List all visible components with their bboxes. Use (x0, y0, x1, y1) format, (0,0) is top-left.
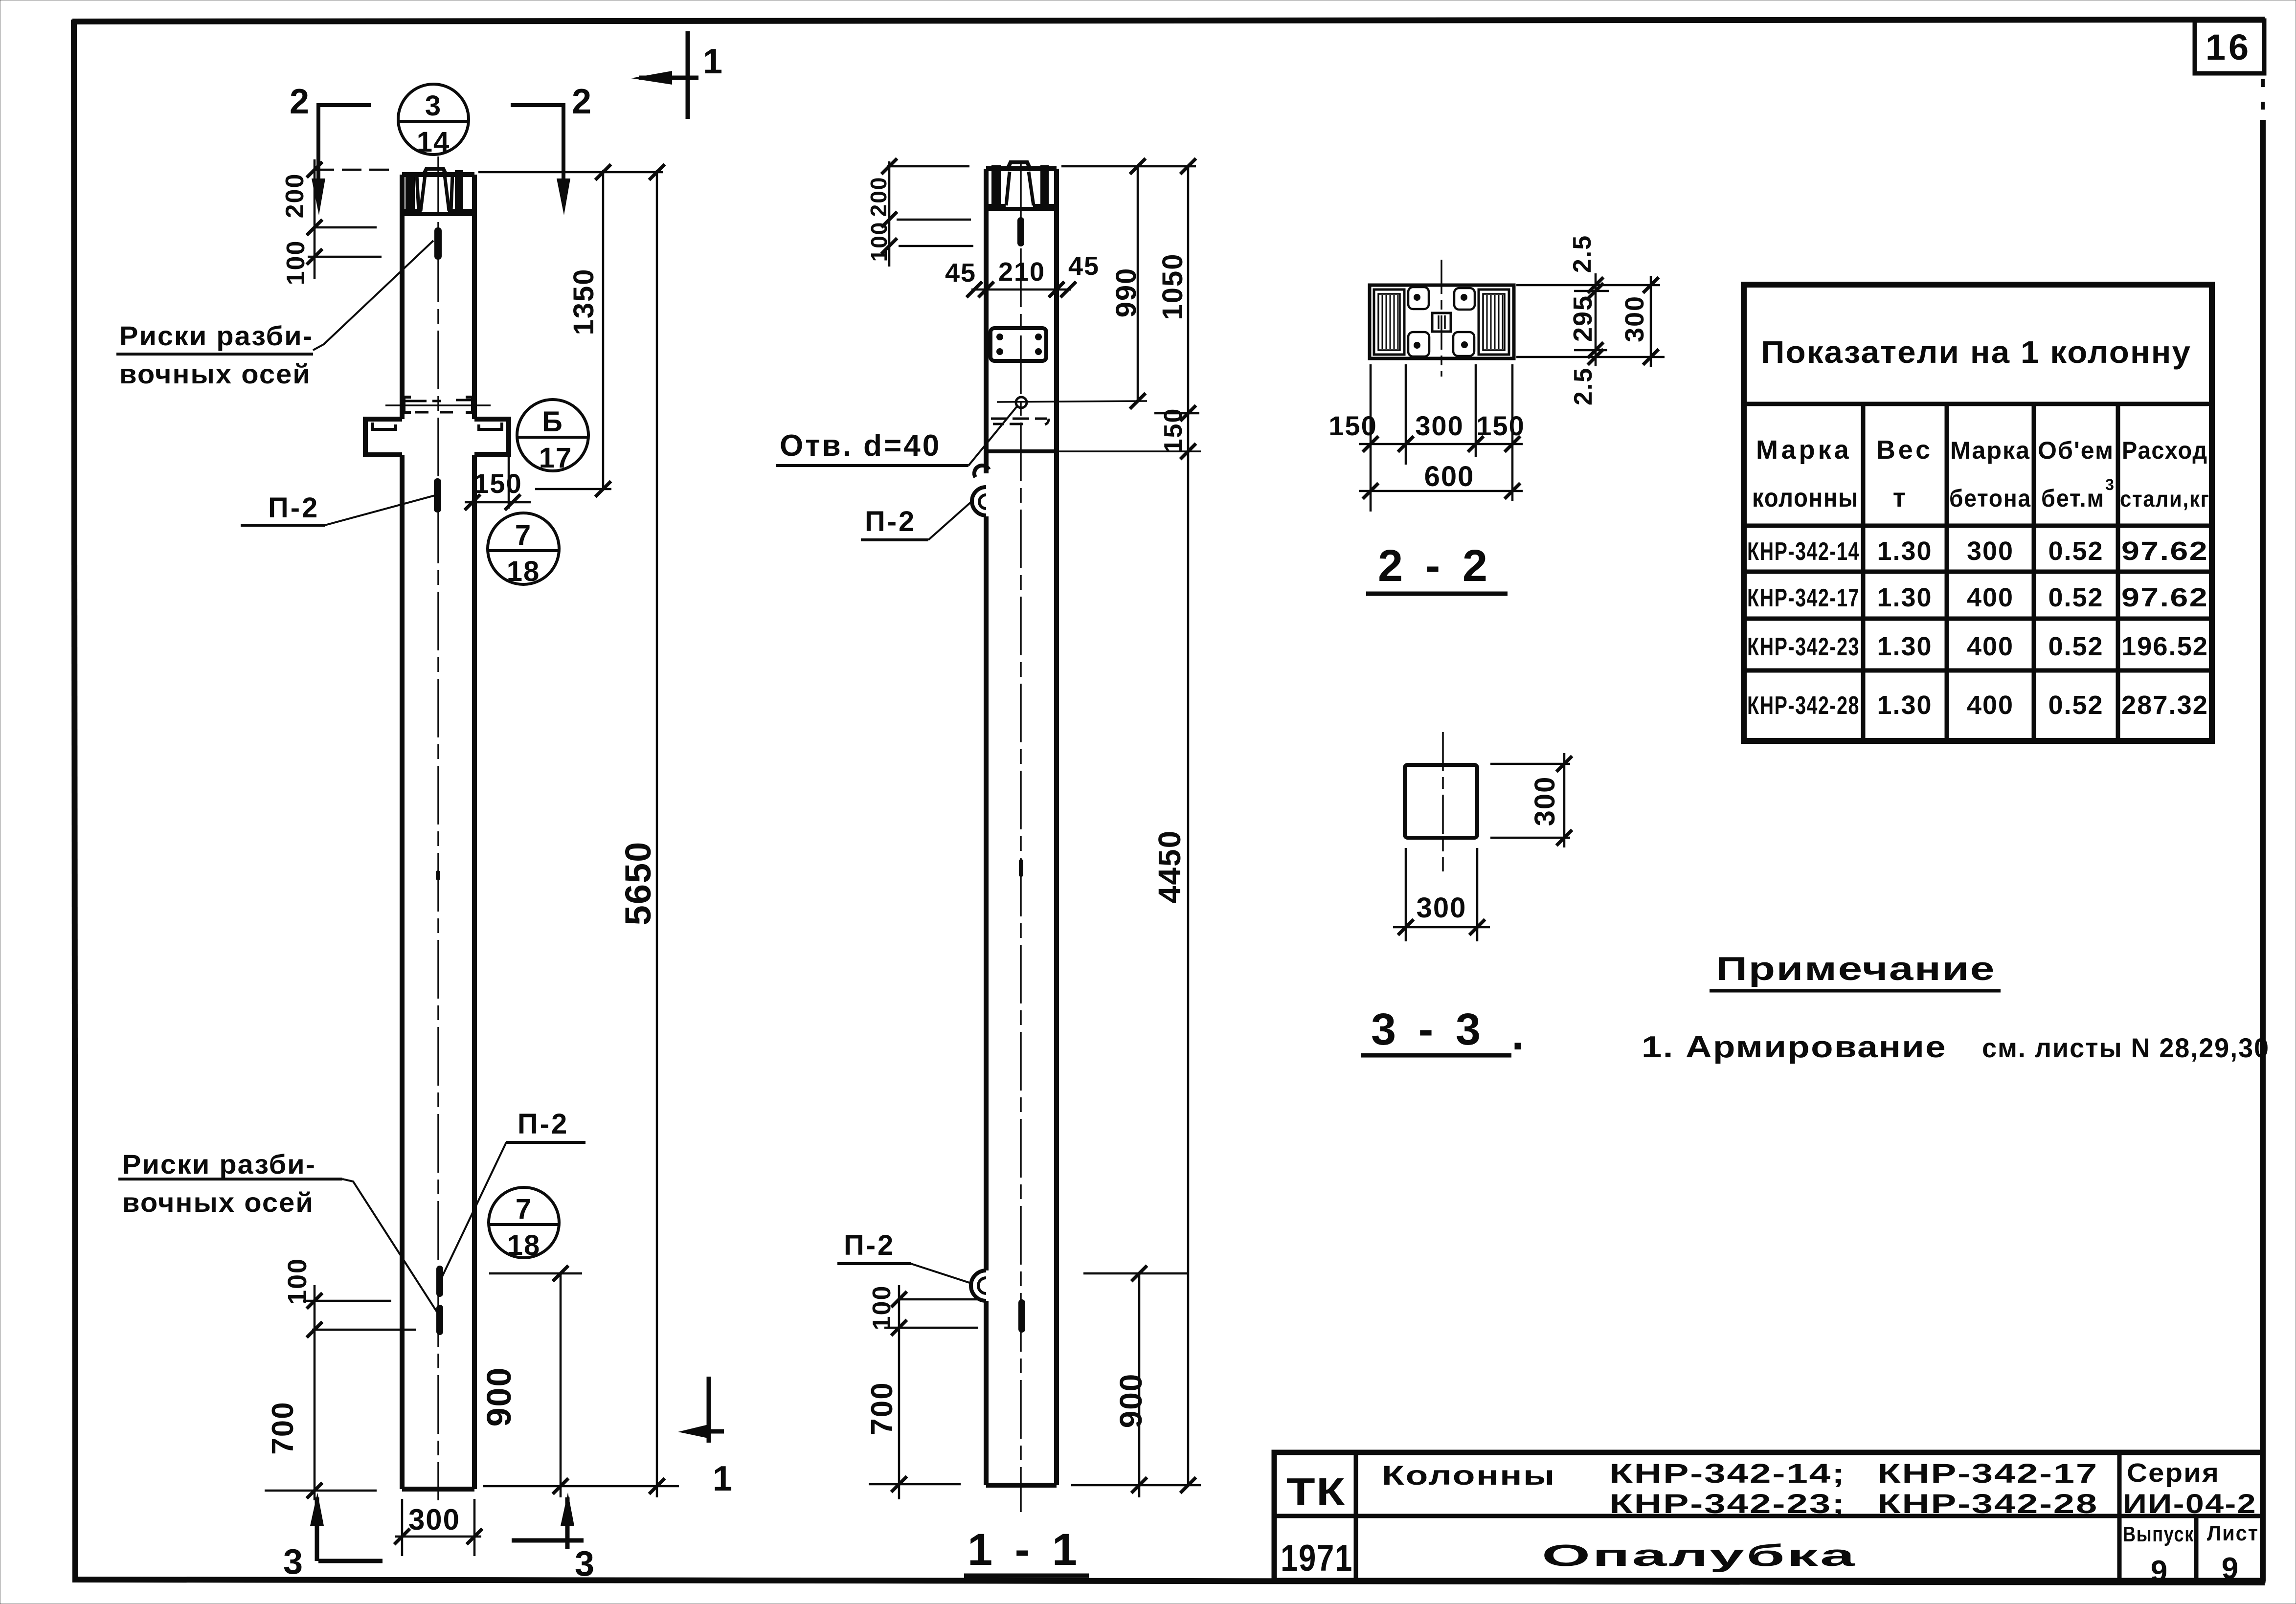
svg-text:2: 2 (572, 82, 592, 121)
svg-text:3: 3 (575, 1544, 595, 1583)
axis heavy dash mid-height (left column) (436, 870, 440, 880)
dim 300 below 3-3 (1393, 848, 1490, 941)
svg-text:1.30: 1.30 (1877, 536, 1932, 566)
svg-text:т: т (1893, 483, 1907, 512)
svg-text:100: 100 (866, 222, 892, 262)
detail circle 7/18 (upper) (488, 513, 559, 584)
svg-text:П-2: П-2 (268, 492, 319, 524)
four corner pads with anchor dots (1408, 287, 1475, 356)
svg-text:18: 18 (507, 1229, 541, 1261)
svg-text:Колонны: Колонны (1382, 1460, 1556, 1491)
svg-text:700: 700 (266, 1401, 300, 1454)
svg-text:1 - 1: 1 - 1 (968, 1525, 1082, 1575)
svg-text:ИИ-04-2: ИИ-04-2 (2123, 1488, 2257, 1519)
svg-text:КНР-342-17: КНР-342-17 (1877, 1458, 2098, 1489)
svg-text:196.52: 196.52 (2121, 632, 2208, 661)
svg-text:бетона: бетона (1949, 485, 2031, 512)
centre tenon of 2-2 (1432, 313, 1451, 332)
svg-text:200: 200 (866, 177, 891, 217)
axis heavy dash mid-height (middle column) (1019, 859, 1023, 877)
dim chain left-top (200/100) (307, 159, 394, 279)
svg-text:990: 990 (1110, 267, 1142, 318)
svg-text:300: 300 (1417, 892, 1467, 924)
svg-text:Серия: Серия (2127, 1458, 2220, 1488)
svg-text:бет.м: бет.м (2041, 485, 2105, 512)
svg-text:0.52: 0.52 (2048, 583, 2103, 612)
svg-text:вочных осей: вочных осей (119, 358, 311, 389)
svg-text:3: 3 (283, 1542, 304, 1582)
svg-text:45: 45 (945, 258, 976, 288)
svg-text:Выпуск: Выпуск (2123, 1522, 2194, 1546)
svg-text:7: 7 (515, 519, 532, 551)
dim 5650 (649, 164, 665, 1497)
svg-text:Марка: Марка (1950, 437, 2030, 464)
svg-text:1971: 1971 (1281, 1537, 1353, 1579)
svg-text:П-2: П-2 (865, 506, 916, 537)
dim 900 (left view, bottom right) (483, 1266, 679, 1497)
svg-text:Расход: Расход (2122, 437, 2208, 464)
middle column fork: black strips (991, 165, 1001, 206)
svg-text:см. листы N 28,29,30: см. листы N 28,29,30 (1982, 1032, 2270, 1063)
svg-text:2.5: 2.5 (1569, 367, 1598, 405)
left column fork bottom lines (403, 211, 473, 214)
section 2-2: centre line (1441, 260, 1442, 377)
section 2-2 outer plan rect (1370, 285, 1514, 358)
dim 900 (middle view) (1083, 1266, 1188, 1497)
svg-text:П-2: П-2 (518, 1108, 569, 1140)
svg-text:Вес: Вес (1876, 435, 1933, 465)
edge bracket marks (404, 397, 473, 413)
svg-text:КНР-342-28: КНР-342-28 (1877, 1488, 2098, 1519)
svg-text:КНР-342-14: КНР-342-14 (1747, 537, 1860, 566)
dim chain middle-bottom (100/700) (869, 1285, 978, 1499)
left column fork slot: black strips (405, 174, 415, 211)
svg-text:295: 295 (1568, 295, 1598, 342)
svg-text:КНР-342-23;: КНР-342-23; (1609, 1488, 1846, 1519)
section 3-3 centre line vertical (1442, 732, 1444, 871)
svg-text:45: 45 (1068, 251, 1100, 281)
svg-text:16: 16 (2206, 27, 2251, 67)
svg-text:2.5: 2.5 (1568, 235, 1597, 273)
svg-text:0.52: 0.52 (2048, 632, 2103, 661)
dim chain middle-top (200/100) (881, 158, 973, 267)
svg-text:9: 9 (2151, 1555, 2168, 1588)
svg-text:100: 100 (282, 240, 310, 286)
svg-text:1.30: 1.30 (1877, 691, 1932, 720)
svg-text:400: 400 (1967, 691, 2014, 720)
svg-text:Показатели на 1 колонну: Показатели на 1 колонну (1761, 334, 2191, 370)
svg-text:Опалубка: Опалубка (1542, 1539, 1857, 1573)
svg-text:97.62: 97.62 (2121, 583, 2208, 612)
table: pokazateli na 1 kolonnu (1744, 285, 2212, 741)
svg-text:1: 1 (713, 1459, 733, 1498)
svg-text:стали,кг: стали,кг (2120, 486, 2210, 512)
right hatched insert (1479, 290, 1509, 355)
svg-text:Об'ем: Об'ем (2038, 437, 2114, 464)
svg-text:300: 300 (1415, 410, 1463, 441)
svg-text:210: 210 (998, 257, 1045, 287)
svg-text:1050: 1050 (1157, 253, 1189, 320)
embedded plate with 4 anchors (990, 328, 1046, 361)
svg-text:700: 700 (865, 1381, 899, 1435)
svg-text:150: 150 (1159, 408, 1188, 453)
dim chain left-bottom (100/700) (265, 1285, 416, 1500)
section 3-3 square (1405, 765, 1477, 838)
middle fork bottom lines (987, 206, 1056, 209)
dim 1050 / 150 / 4450 line (1057, 158, 1201, 1493)
svg-text:Б: Б (542, 406, 563, 438)
svg-text:КНР-342-23: КНР-342-23 (1747, 633, 1860, 661)
detail circle 3/14 (398, 84, 469, 155)
sheet number box 16 (2195, 21, 2264, 73)
svg-text:0.52: 0.52 (2048, 536, 2103, 566)
dim 300 right of 3-3 (1490, 753, 1572, 847)
leader line to top riska (313, 241, 433, 350)
svg-text:17: 17 (539, 442, 573, 474)
svg-text:Лист: Лист (2207, 1521, 2259, 1545)
svg-text:150: 150 (473, 468, 522, 499)
left hatched insert (1374, 290, 1404, 355)
middle column view: centre axis line (1020, 161, 1022, 1512)
svg-text:3 - 3: 3 - 3 (1371, 1004, 1486, 1054)
axis mark (riska) bottom of middle column (1018, 1299, 1025, 1333)
svg-text:1.30: 1.30 (1877, 583, 1932, 612)
svg-text:.: . (1511, 1009, 1525, 1059)
P-2 hook (lower) on middle column edge (971, 1270, 986, 1301)
left column view: centre axis line (437, 156, 439, 1500)
svg-text:5650: 5650 (618, 841, 658, 926)
svg-text:Риски разби-: Риски разби- (122, 1149, 316, 1180)
svg-text:600: 600 (1424, 461, 1475, 492)
svg-text:300: 300 (1620, 295, 1649, 342)
axis mark (riska) at corbel level (434, 478, 441, 512)
left column fork slot walls (417, 175, 452, 211)
svg-text:287.32: 287.32 (2121, 691, 2208, 720)
middle fork slot walls (1006, 172, 1034, 205)
dim 1350 (478, 164, 663, 497)
left column outline (402, 175, 474, 1489)
svg-text:400: 400 (1967, 583, 2014, 612)
separation line of upper section (986, 449, 1057, 453)
svg-text:1.30: 1.30 (1877, 632, 1932, 661)
middle column top tenon bump (1008, 162, 1030, 169)
svg-text:колонны: колонны (1752, 483, 1859, 512)
svg-text:3: 3 (2105, 476, 2115, 493)
leader line to corbel riska (325, 495, 437, 525)
corbel (widened section) of left column (365, 419, 509, 455)
svg-text:300: 300 (1529, 776, 1561, 826)
leader to bottom riski (342, 1179, 438, 1314)
dim 300 at column base (394, 1499, 482, 1556)
dims 2.5/295/2.5 and 300 right of 2-2 (1516, 273, 1665, 367)
svg-text:2 - 2: 2 - 2 (1378, 541, 1492, 591)
svg-text:14: 14 (417, 126, 450, 158)
corbel notches (373, 423, 502, 429)
svg-text:3: 3 (425, 90, 442, 122)
middle column outline (986, 169, 1057, 1485)
svg-text:2: 2 (290, 82, 310, 121)
svg-text:КНР-342-14;: КНР-342-14; (1609, 1458, 1846, 1489)
axis marks (riski) near column bottom (436, 1266, 443, 1297)
svg-text:300: 300 (408, 1503, 460, 1536)
svg-text:150: 150 (1328, 410, 1377, 441)
svg-text:0.52: 0.52 (2048, 691, 2103, 720)
svg-text:100: 100 (868, 1285, 896, 1331)
leader to riska (439, 1142, 506, 1284)
svg-text:150: 150 (1476, 410, 1525, 441)
svg-text:7: 7 (516, 1193, 532, 1225)
svg-text:900: 900 (1113, 1373, 1148, 1428)
dims 150/300/150 and 600 below 2-2 (1359, 364, 1523, 512)
svg-text:ТК: ТК (1286, 1470, 1346, 1514)
P-2 hook (upper) on middle column edge (972, 466, 989, 515)
svg-text:18: 18 (507, 556, 540, 587)
hole otv d40 (1016, 397, 1027, 408)
hidden joint dashes at upper column (385, 400, 491, 412)
svg-text:900: 900 (480, 1367, 518, 1427)
svg-text:Риски разби-: Риски разби- (119, 320, 313, 351)
detail circle B/17 (517, 400, 588, 471)
svg-text:300: 300 (1967, 536, 2014, 566)
dashed pocket under hole (991, 419, 1049, 424)
svg-text:4450: 4450 (1152, 830, 1187, 903)
detail circle 7/18 (lower) (489, 1187, 559, 1258)
left column top tenon bump (424, 169, 446, 175)
svg-text:Примечание: Примечание (1716, 950, 1996, 987)
svg-text:97.62: 97.62 (2121, 536, 2208, 566)
svg-text:1: 1 (703, 42, 723, 81)
svg-text:П-2: П-2 (844, 1229, 895, 1261)
svg-text:КНР-342-28: КНР-342-28 (1747, 691, 1860, 720)
svg-text:200: 200 (281, 173, 309, 219)
svg-text:1. Армирование: 1. Армирование (1642, 1030, 1947, 1064)
title block (1274, 1452, 2263, 1581)
svg-text:9: 9 (2222, 1552, 2239, 1585)
dim 45/210/45 (967, 274, 1076, 327)
svg-text:КНР-342-17: КНР-342-17 (1747, 584, 1860, 612)
svg-text:100: 100 (283, 1258, 312, 1305)
svg-text:вочных осей: вочных осей (122, 1187, 314, 1218)
axis mark (riska) top of middle column (1017, 217, 1024, 246)
axis mark (riska) at column top (434, 227, 442, 260)
svg-text:Марка: Марка (1756, 435, 1852, 465)
dim 150 at corbel (465, 457, 531, 510)
svg-text:Отв. d=40: Отв. d=40 (780, 429, 941, 463)
svg-text:1350: 1350 (568, 268, 600, 335)
dim 990 (1061, 158, 1196, 409)
svg-text:400: 400 (1967, 632, 2014, 661)
